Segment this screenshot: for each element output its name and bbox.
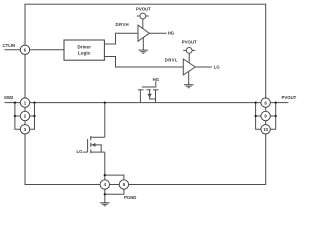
svg-text:DRVL: DRVL (165, 58, 178, 63)
node: rail junctions (14, 101, 277, 195)
op-amp U2 DRVL gate-drive buffer (183, 59, 195, 75)
wire: PGND upper tie bus (pin4 to pin5) (105, 175, 124, 184)
pin 10 (261, 125, 270, 134)
ground (DRVL buffer) (184, 71, 194, 87)
pin 5 (119, 180, 128, 189)
svg-text:PVOUT: PVOUT (282, 95, 297, 100)
svg-text:Logic: Logic (78, 51, 91, 56)
ground (PGND) (100, 203, 110, 206)
svg-text:SW2: SW2 (4, 95, 14, 100)
wire: low-side source to PGND pin 4 (104, 152, 106, 184)
svg-text:LG: LG (77, 149, 84, 154)
ground (DRVH buffer) (139, 37, 149, 53)
wire: pin9 tie stub (256, 115, 276, 117)
svg-text:PVOUT: PVOUT (136, 7, 151, 12)
pin 8 (261, 98, 270, 107)
wire: SW2/switch-node rail (pin1 to pin8) with external leads (5, 102, 289, 104)
svg-text:DRVH: DRVH (116, 22, 130, 27)
wire: PGND lower tie bus (pin4 to pin5) (105, 185, 124, 195)
svg-text:LG: LG (214, 64, 221, 69)
pin 6 (20, 45, 29, 54)
wire: LG output of DRVL buffer (195, 66, 212, 68)
wire: driver logic to DRVH buffer input (104, 33, 138, 44)
wire: SW2 inner bus (pins 1-3) (30, 103, 35, 130)
wire: switch node to low-side drain (91, 103, 105, 138)
svg-text:PGND: PGND (124, 195, 136, 200)
svg-text:Driver: Driver (77, 44, 91, 49)
wire: HG output of DRVH buffer (149, 32, 166, 34)
terminal PVOUT (DRVL supply) (183, 48, 195, 65)
pin 4 (100, 180, 109, 189)
wire: CTLIN lead from pin 6 to driver logic (5, 49, 65, 51)
terminal PVOUT (DRVH supply) (137, 13, 149, 31)
svg-text:CTLIN: CTLIN (3, 43, 16, 48)
svg-text:PVOUT: PVOUT (182, 40, 197, 45)
wire: pin2 tie stub (15, 115, 35, 117)
transistor Q2 low-side MOSFET (83, 136, 105, 153)
transistor Q1 high-side MOSFET (138, 81, 159, 102)
pin 3 (20, 125, 29, 134)
wire: driver logic to DRVL buffer input (104, 57, 183, 68)
svg-text:10: 10 (263, 127, 268, 132)
wire: PVOUT outer bus (pins 8-10) (270, 103, 275, 130)
wire: PVOUT inner bus (pins 8-10) (256, 103, 261, 130)
pin 2 (20, 111, 29, 120)
wire: ground stub below pin 4 (104, 194, 106, 203)
pin 1 (20, 98, 29, 107)
IC package outline (25, 4, 266, 184)
svg-text:HG: HG (168, 31, 175, 36)
svg-text:HG: HG (153, 77, 160, 82)
wire: SW2 outer bus (pins 1-3) (15, 103, 21, 130)
driver logic block (64, 40, 104, 60)
pin 9 (261, 111, 270, 120)
op-amp U1 DRVH gate-drive buffer (138, 25, 149, 41)
